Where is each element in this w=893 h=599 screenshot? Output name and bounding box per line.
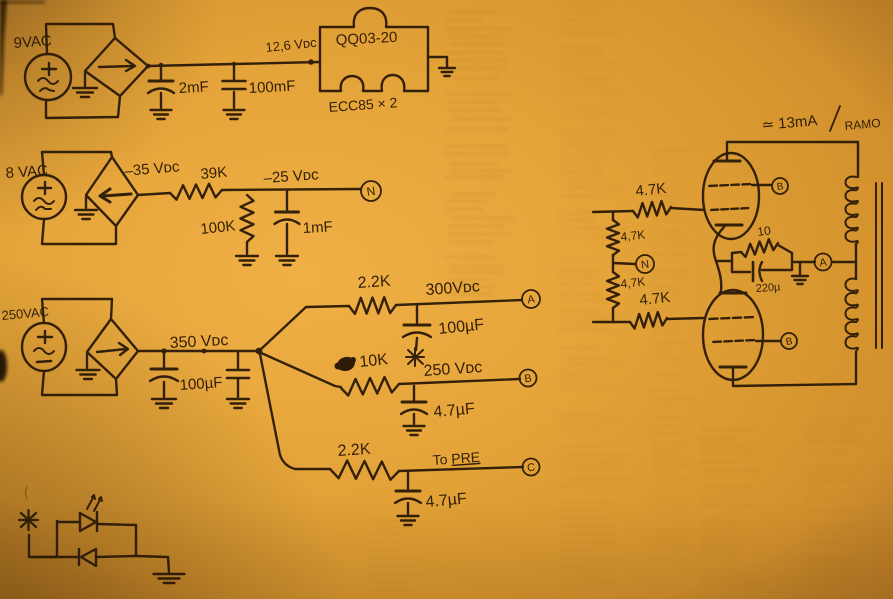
wire V4 plate up — [727, 142, 858, 177]
resistor R7 4.7K chain upper — [607, 212, 619, 272]
node A right — [815, 254, 832, 271]
ground at bridge D2 — [75, 197, 97, 219]
svg-text:4.7K: 4.7K — [635, 180, 667, 200]
ground at R2 — [236, 256, 258, 265]
wire V3 bottom to bridge — [42, 371, 117, 395]
wire fan to branch B — [259, 352, 341, 387]
resistor R5 2.2K — [330, 461, 399, 480]
wire fan to branch C — [260, 354, 330, 469]
svg-text:100µF: 100µF — [179, 374, 223, 394]
svg-text:4.7µF: 4.7µF — [425, 490, 468, 511]
wire cathodes join — [714, 227, 724, 291]
node B bottom tube — [781, 333, 797, 349]
wire diode loop left — [56, 521, 58, 557]
tube V4 top — [703, 153, 759, 239]
resistor R6 4.7K top grid — [633, 201, 671, 218]
ground at bridge D1 — [73, 73, 97, 97]
svg-text:4.7K: 4.7K — [639, 289, 671, 309]
capacitor C7 4.7uF — [401, 386, 427, 435]
capacitor C6 100uF — [403, 306, 431, 350]
svg-text:QQ03-20: QQ03-20 — [335, 29, 398, 49]
resistor R4 10K — [341, 377, 399, 396]
power unit block U1 QQ03-20 — [320, 8, 428, 91]
wire V5 screen to B — [756, 340, 780, 342]
ac source V2 8VAC — [22, 175, 66, 219]
wire bridge D3 to fan junction — [138, 350, 259, 352]
svg-text:10K: 10K — [359, 351, 389, 371]
svg-text:2.2K: 2.2K — [337, 441, 371, 460]
svg-text:1mF: 1mF — [302, 218, 333, 237]
star marker bottom left — [19, 510, 38, 530]
bridge rectifier D3 — [87, 319, 138, 379]
tube V5 bottom — [703, 290, 763, 380]
wire coil center tap — [855, 244, 857, 279]
bridge rectifier D1 — [85, 38, 148, 96]
resistor R9 4.7K bottom grid — [630, 312, 667, 329]
capacitor C1 2mF — [148, 65, 174, 119]
node N tick — [613, 263, 635, 264]
star node marker — [406, 348, 424, 366]
resistor R10 10 — [732, 239, 792, 257]
capacitor C9 220u in box — [732, 253, 792, 281]
wire node A to transformer tap — [832, 261, 856, 263]
svg-text:2.2K: 2.2K — [357, 273, 391, 292]
svg-text:220µ: 220µ — [755, 281, 781, 295]
capacitor C8 4.7uF — [395, 471, 421, 525]
ground at U1 — [439, 68, 455, 76]
node N right — [636, 255, 654, 273]
wire bridge D2 to R1 — [138, 193, 170, 195]
transformer primary coil lower — [846, 279, 858, 351]
wire R4 to node B — [399, 379, 520, 384]
resistor R1 39K — [170, 184, 222, 200]
node B top tube — [772, 178, 788, 194]
svg-text:C: C — [526, 461, 536, 474]
svg-text:350 Vᴅᴄ: 350 Vᴅᴄ — [169, 332, 228, 352]
resistor R8 4.7K chain lower — [607, 272, 619, 322]
junction dots row3 — [161, 348, 262, 355]
resistor R2 100K — [241, 195, 254, 254]
wire R1 to node N — [222, 189, 361, 190]
wire bridge D1 output — [148, 62, 320, 66]
svg-text:To PRE: To PRE — [432, 449, 480, 468]
capacitor C3 1mF — [275, 190, 300, 265]
svg-text:4,7K: 4,7K — [620, 227, 646, 244]
label 13mA / RAMO — [761, 112, 881, 134]
capacitor C4 100uF — [150, 351, 178, 408]
ground at bridge D3 — [77, 354, 100, 379]
wire R5 to node C — [399, 467, 523, 471]
capacitor C5 — [227, 351, 249, 408]
node N row2 — [361, 181, 381, 201]
svg-text:2mF: 2mF — [178, 78, 209, 97]
transformer primary coil upper — [846, 177, 858, 244]
LED light arrows — [87, 495, 102, 511]
capacitor C2 100mF — [223, 64, 246, 119]
wire grid top left — [593, 211, 633, 212]
ac source V1 9VAC — [25, 54, 71, 100]
node C branch — [523, 459, 540, 476]
wire RC to node A — [792, 261, 815, 263]
wire V1 bottom to bridge — [46, 96, 120, 118]
junction dots row1 — [146, 59, 314, 68]
svg-text:4,7K: 4,7K — [620, 274, 646, 291]
svg-text:39K: 39K — [200, 164, 228, 183]
ground at RC — [792, 262, 808, 284]
wire cathode to RC — [716, 260, 732, 262]
diode D5 bottom — [31, 549, 136, 566]
wire R6 to tube V4 — [671, 208, 704, 210]
wire V4 screen to B — [752, 184, 771, 186]
node B branch — [520, 370, 537, 387]
node A branch — [522, 290, 540, 308]
transformer core lines — [876, 183, 882, 348]
wire U1 to ground — [428, 57, 447, 67]
svg-text:N: N — [640, 258, 650, 271]
ink blob — [335, 355, 357, 373]
svg-text:100mF: 100mF — [248, 78, 296, 97]
wire grid bottom left — [593, 321, 630, 323]
wire V1 top to bridge — [46, 24, 115, 54]
wire R9 to tube V5 — [667, 318, 703, 319]
slash mark — [830, 106, 840, 131]
svg-text:10: 10 — [756, 223, 771, 239]
diode D4 LED top — [57, 512, 136, 555]
wire V5 plate down — [733, 352, 856, 386]
wire V2 top to bridge — [42, 152, 112, 175]
resistor R3 2.2K — [349, 297, 396, 314]
bridge rectifier D2 — [86, 157, 138, 226]
wire R3 to node A — [396, 300, 522, 305]
faint pen arc — [26, 487, 28, 499]
wire to ground diode pair — [136, 556, 169, 572]
svg-text:4.7µF: 4.7µF — [433, 400, 476, 421]
wire V3 top to bridge — [42, 299, 112, 323]
ground diode pair — [154, 574, 185, 583]
wire star stub — [29, 535, 57, 557]
ac source V3 250VAC — [22, 323, 66, 371]
wire fan to branch A — [259, 306, 349, 351]
wire V2 bottom to bridge — [42, 219, 116, 244]
